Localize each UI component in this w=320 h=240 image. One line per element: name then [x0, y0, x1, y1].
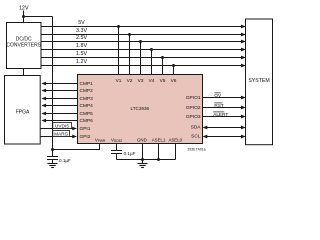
- svg-text:V5: V5: [160, 78, 166, 84]
- arrow GPI1 into LTC2936: [72, 127, 77, 131]
- wire 2.5V rail: [41, 41, 245, 43]
- svg-text:CMP1: CMP1: [80, 81, 94, 87]
- junction V2 tap on 3.3V: [128, 33, 131, 36]
- svg-text:V3: V3: [138, 78, 144, 84]
- wire 1.8V rail: [41, 49, 245, 51]
- arrow SCL into LTC2936: [203, 135, 208, 139]
- wire 12V vertical drop: [52, 17, 54, 150]
- wire GPI1 from FPGA: [41, 128, 73, 130]
- svg-text:ALERT: ALERT: [213, 112, 228, 117]
- wire V4 sense drop: [151, 50, 153, 75]
- arrow CMP3 into FPGA: [41, 97, 46, 101]
- node UVDIS net flag: [53, 123, 72, 129]
- wire GPIO1 to SYSTEM: [203, 97, 242, 99]
- wire 3.3V rail: [41, 34, 245, 36]
- wire CMP6 to FPGA: [46, 120, 78, 122]
- arrow 3.3V into SYSTEM: [241, 33, 246, 37]
- wire 5V rail: [41, 26, 245, 28]
- svg-text:V4: V4: [149, 78, 155, 84]
- wire 12V to VPWR pin: [53, 144, 100, 150]
- arrow GPIO3 into SYSTEM: [241, 115, 246, 119]
- junction VPWR bypass tap: [51, 148, 54, 151]
- wire GND pin drop: [142, 144, 144, 160]
- arrow CMP2 into FPGA: [41, 89, 46, 93]
- arrow SCL into SYSTEM: [241, 135, 246, 139]
- wire V5 sense drop: [162, 58, 164, 75]
- svg-text:0.1µF: 0.1µF: [59, 158, 71, 163]
- wire DC/DC to FPGA supply link: [23, 69, 25, 77]
- svg-text:1.5V: 1.5V: [76, 51, 87, 57]
- svg-text:GND: GND: [137, 138, 147, 143]
- wire CMP5 to FPGA: [46, 113, 78, 115]
- junction GND on bus: [141, 158, 144, 161]
- svg-text:0.1µF: 0.1µF: [124, 151, 136, 156]
- ground symbol under GND pin: [138, 160, 148, 168]
- wire CMP2 to FPGA: [46, 90, 78, 92]
- svg-text:RST: RST: [214, 103, 224, 108]
- arrow GPIO2 into SYSTEM: [241, 106, 246, 110]
- arrow SDA into LTC2936: [203, 126, 208, 130]
- svg-text:SCL: SCL: [191, 133, 201, 139]
- svg-text:GPI2: GPI2: [80, 134, 91, 140]
- wire GPIO3 to SYSTEM: [203, 116, 242, 118]
- arrow SDA into SYSTEM: [241, 126, 246, 130]
- node RST net label (active low): [214, 103, 224, 108]
- svg-text:MARG: MARG: [54, 132, 68, 137]
- svg-text:CMP3: CMP3: [80, 96, 94, 102]
- ground symbol under C1: [48, 164, 58, 168]
- svg-text:V2: V2: [127, 78, 133, 84]
- svg-text:2.5V: 2.5V: [76, 35, 87, 41]
- junction V6 tap on 1.2V: [172, 64, 175, 67]
- wire VDD33 to bypass cap: [116, 144, 118, 151]
- wire 1.5V rail: [41, 57, 245, 59]
- svg-text:1.2V: 1.2V: [76, 59, 87, 65]
- wire 12V feed into DC/DC converters: [23, 11, 25, 23]
- wire CMP4 to FPGA: [46, 105, 78, 107]
- svg-text:V6: V6: [171, 78, 177, 84]
- capacitor C2 0.1uF on VDD33: [111, 151, 122, 160]
- node ALERT net label (active low): [213, 112, 228, 117]
- svg-text:CMP6: CMP6: [80, 118, 94, 124]
- wire SDA I2C bus: [207, 127, 241, 129]
- arrow 1.8V into SYSTEM: [241, 48, 246, 52]
- arrow CMP6 into FPGA: [41, 119, 46, 123]
- svg-text:V1: V1: [116, 78, 122, 84]
- svg-text:5V: 5V: [78, 20, 85, 26]
- svg-text:OV: OV: [214, 93, 222, 98]
- wire V3 sense drop: [140, 42, 142, 75]
- svg-text:VDD33: VDD33: [111, 138, 122, 144]
- wire ASEL0 drop: [175, 144, 177, 160]
- capacitor C1 0.1uF on VPWR: [47, 150, 58, 164]
- wire 12V horizontal run: [24, 16, 53, 18]
- wire ground bus under chip: [117, 159, 176, 161]
- wire GPI2 from FPGA: [41, 136, 73, 138]
- svg-text:VPWR: VPWR: [95, 138, 106, 144]
- svg-text:CMP4: CMP4: [80, 103, 94, 109]
- arrow 1.5V into SYSTEM: [241, 56, 246, 60]
- svg-text:2936 TA01a: 2936 TA01a: [187, 147, 205, 151]
- wire CMP3 to FPGA: [46, 98, 78, 100]
- wire 1.2V rail: [41, 65, 245, 67]
- node OV net label (active low): [214, 93, 222, 98]
- junction ASEL1 on bus: [157, 158, 160, 161]
- svg-text:FPGA: FPGA: [16, 110, 30, 116]
- junction 12V tap: [22, 15, 25, 18]
- svg-text:CONVERTERS: CONVERTERS: [6, 43, 41, 49]
- svg-text:UVDIS: UVDIS: [55, 124, 69, 129]
- wire CMP1 to FPGA: [46, 83, 78, 85]
- svg-text:3.3V: 3.3V: [76, 28, 87, 34]
- svg-text:CMP2: CMP2: [80, 88, 94, 94]
- svg-text:ASEL0: ASEL0: [168, 138, 182, 143]
- svg-text:1.8V: 1.8V: [76, 43, 87, 49]
- svg-text:GPIO3: GPIO3: [186, 114, 201, 120]
- wire V2 sense drop: [129, 35, 131, 75]
- wire V1 sense drop: [118, 27, 120, 75]
- arrow CMP5 into FPGA: [41, 112, 46, 116]
- svg-text:LTC2936: LTC2936: [131, 106, 150, 111]
- wire ASEL1 drop: [158, 144, 160, 160]
- svg-text:12V: 12V: [19, 6, 29, 12]
- arrow 5V into SYSTEM: [241, 25, 246, 29]
- node MARG net flag: [53, 131, 70, 137]
- junction V5 tap on 1.5V: [161, 56, 164, 59]
- svg-text:SDA: SDA: [191, 124, 202, 130]
- junction V3 tap on 2.5V: [139, 40, 142, 43]
- svg-text:GPIO2: GPIO2: [186, 105, 201, 111]
- arrow CMP1 into FPGA: [41, 82, 46, 86]
- svg-text:GPI1: GPI1: [80, 126, 91, 132]
- wire GPIO2 to SYSTEM: [203, 107, 242, 109]
- junction V1 tap on 5V: [117, 25, 120, 28]
- block DC/DC converters: [6, 23, 41, 69]
- svg-text:GPIO1: GPIO1: [186, 95, 201, 101]
- svg-text:CMP5: CMP5: [80, 111, 94, 117]
- junction V4 tap on 1.8V: [150, 48, 153, 51]
- wire V6 sense drop: [173, 66, 175, 75]
- IC U1 LTC2936 body: [78, 75, 203, 144]
- block SYSTEM: [246, 19, 273, 145]
- arrow GPI2 into LTC2936: [72, 135, 77, 139]
- wire SCL I2C bus: [207, 136, 241, 138]
- block FPGA: [5, 76, 41, 145]
- arrow 2.5V into SYSTEM: [241, 40, 246, 44]
- arrow CMP4 into FPGA: [41, 104, 46, 108]
- svg-text:SYSTEM: SYSTEM: [248, 78, 269, 84]
- arrow 1.2V into SYSTEM: [241, 64, 246, 68]
- arrow GPIO1 into SYSTEM: [241, 96, 246, 100]
- svg-text:ASEL1: ASEL1: [152, 138, 166, 143]
